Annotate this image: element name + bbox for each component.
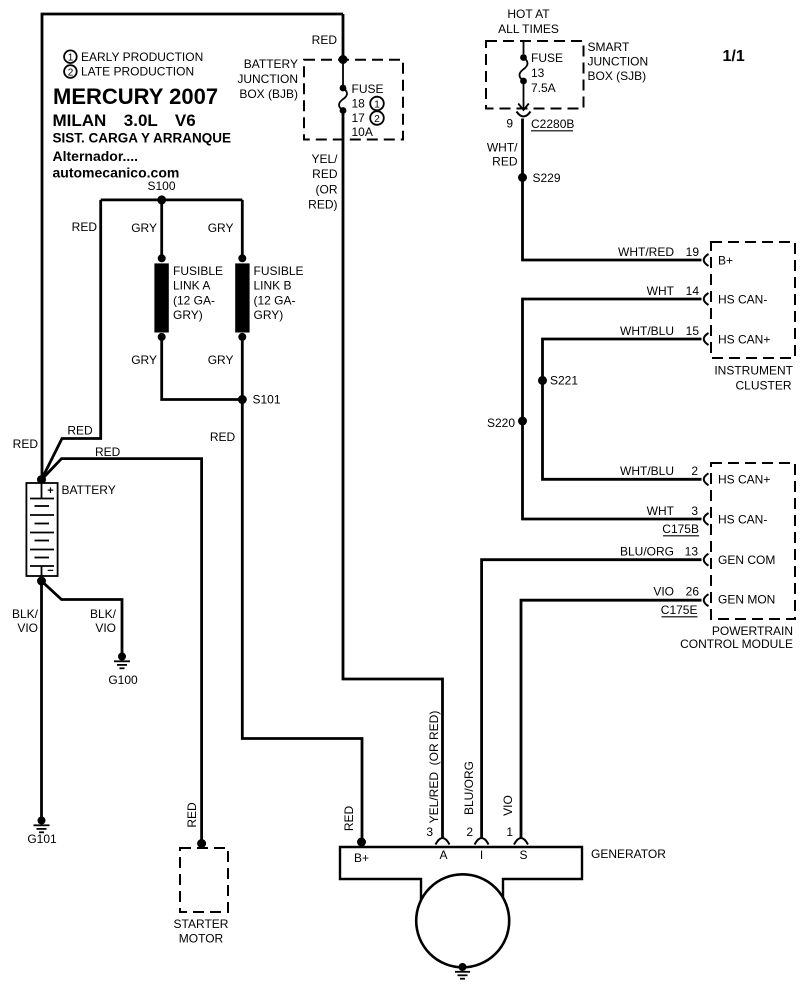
svg-text:WHT/: WHT/ <box>487 141 518 155</box>
svg-text:BLK/: BLK/ <box>12 607 39 621</box>
svg-text:WHT/BLU: WHT/BLU <box>620 464 674 478</box>
svg-text:G101: G101 <box>27 832 57 846</box>
wire YEL/RED (OR RED) from BJB fuse to generator A <box>308 111 442 839</box>
svg-text:LATE PRODUCTION: LATE PRODUCTION <box>81 65 194 79</box>
wire RED from S101 to generator B+ <box>210 400 362 841</box>
svg-text:RED): RED) <box>308 198 337 212</box>
svg-text:WHT: WHT <box>647 504 675 518</box>
instrument cluster (dashed) <box>711 242 795 393</box>
connector C175B label <box>662 522 699 536</box>
hot at all times label <box>498 7 559 36</box>
connector pin cluster HS CAN- <box>704 293 709 305</box>
svg-text:MILAN 3.0L V6: MILAN 3.0L V6 <box>53 111 196 130</box>
svg-text:13: 13 <box>531 66 545 80</box>
wire GRY from link B to S101 <box>208 337 243 400</box>
connector pin PCM HS CAN- <box>704 513 709 525</box>
svg-text:MERCURY 2007: MERCURY 2007 <box>53 84 218 109</box>
svg-text:15: 15 <box>686 324 700 338</box>
svg-text:2: 2 <box>691 464 698 478</box>
legend early/late production <box>64 50 203 79</box>
node generator B+ <box>357 838 366 847</box>
svg-text:HS CAN-: HS CAN- <box>718 513 767 527</box>
powertrain control module (dashed) <box>680 463 795 651</box>
svg-text:VIO: VIO <box>653 585 674 599</box>
title block <box>53 84 232 181</box>
svg-text:1: 1 <box>374 99 380 110</box>
svg-text:13: 13 <box>685 545 699 559</box>
svg-text:BLK/: BLK/ <box>90 607 117 621</box>
fusible link B <box>235 254 303 341</box>
svg-text:RED: RED <box>492 155 518 169</box>
svg-text:18: 18 <box>352 97 366 111</box>
svg-text:GRY): GRY) <box>173 308 203 322</box>
svg-text:G100: G100 <box>108 673 138 687</box>
connector pin generator A <box>436 838 450 845</box>
ground at generator <box>455 963 470 979</box>
splice S229 <box>518 171 561 185</box>
svg-text:EARLY PRODUCTION: EARLY PRODUCTION <box>81 50 203 64</box>
splice S221 <box>538 374 578 388</box>
svg-text:WHT/BLU: WHT/BLU <box>620 324 674 338</box>
ground G101 <box>27 817 57 847</box>
svg-text:14: 14 <box>686 284 700 298</box>
svg-text:WHT: WHT <box>647 284 675 298</box>
svg-text:HS CAN+: HS CAN+ <box>718 333 770 347</box>
generator body circle <box>416 874 509 967</box>
fuse 18/17 10A in BJB <box>339 60 384 140</box>
svg-text:SIST. CARGA Y ARRANQUE: SIST. CARGA Y ARRANQUE <box>53 131 232 146</box>
svg-text:BATTERY: BATTERY <box>62 483 116 497</box>
wire BLK/VIO battery to G100 <box>42 581 123 653</box>
connector pin PCM GEN COM <box>704 554 709 566</box>
svg-text:RED: RED <box>342 806 356 832</box>
wire WHT/RED from connector to S229 to cluster B+ <box>487 119 702 261</box>
splice S101 <box>238 393 281 407</box>
wire VIO PCM GEN MON to generator S <box>501 585 702 839</box>
svg-text:10A: 10A <box>352 125 373 139</box>
svg-text:GEN MON: GEN MON <box>718 593 775 607</box>
svg-text:CONTROL MODULE: CONTROL MODULE <box>680 637 793 651</box>
svg-text:ALL TIMES: ALL TIMES <box>498 22 559 36</box>
svg-text:GEN COM: GEN COM <box>718 553 775 567</box>
connector pin cluster HS CAN+ <box>704 333 709 345</box>
svg-text:RED: RED <box>312 167 338 181</box>
wire GRY to fusible link A <box>131 200 161 258</box>
node battery positive <box>37 475 46 484</box>
svg-text:Alternador....: Alternador.... <box>53 148 139 164</box>
svg-text:2: 2 <box>68 67 74 78</box>
wire RED from S100 to battery <box>42 200 101 480</box>
svg-text:1: 1 <box>506 825 513 839</box>
svg-text:19: 19 <box>686 245 700 259</box>
svg-text:B+: B+ <box>718 254 733 268</box>
svg-text:WHT/RED: WHT/RED <box>618 245 674 259</box>
svg-text:RED: RED <box>72 220 98 234</box>
svg-text:INSTRUMENT: INSTRUMENT <box>714 364 793 378</box>
svg-text:MOTOR: MOTOR <box>179 932 224 946</box>
svg-text:(12 GA-: (12 GA- <box>254 293 296 307</box>
splice S100 <box>147 179 175 204</box>
svg-text:GRY): GRY) <box>254 308 284 322</box>
node battery negative <box>37 577 46 586</box>
svg-text:RED: RED <box>312 33 338 47</box>
svg-text:(12 GA-: (12 GA- <box>173 293 215 307</box>
svg-text:C175E: C175E <box>661 603 698 617</box>
svg-text:S100: S100 <box>147 179 175 193</box>
battery <box>26 483 115 577</box>
svg-text:S220: S220 <box>487 416 515 430</box>
svg-text:BOX (SJB): BOX (SJB) <box>588 69 647 83</box>
generator box <box>340 847 582 905</box>
svg-text:FUSIBLE: FUSIBLE <box>173 264 223 278</box>
svg-text:LINK A: LINK A <box>173 279 210 293</box>
wire WHT/BLU cluster HS CAN+ to PCM HS CAN+ <box>543 324 702 479</box>
svg-text:S229: S229 <box>533 171 561 185</box>
svg-text:CLUSTER: CLUSTER <box>735 379 791 393</box>
wire GRY to fusible link B <box>208 200 243 258</box>
svg-text:+: + <box>47 485 53 497</box>
svg-text:B+: B+ <box>354 851 369 865</box>
svg-text:JUNCTION: JUNCTION <box>237 72 298 86</box>
svg-text:FUSE: FUSE <box>531 51 563 65</box>
svg-text:LINK B: LINK B <box>254 279 292 293</box>
svg-text:1/1: 1/1 <box>723 48 745 65</box>
svg-text:GRY: GRY <box>131 221 157 235</box>
svg-text:RED: RED <box>95 445 121 459</box>
svg-text:2: 2 <box>374 114 380 125</box>
svg-text:1: 1 <box>68 53 74 64</box>
node junction at BJB top <box>339 55 348 64</box>
fusible link A <box>154 254 223 341</box>
svg-text:RED: RED <box>185 802 199 828</box>
svg-text:VIO: VIO <box>17 621 38 635</box>
connector pin PCM GEN MON <box>704 594 709 606</box>
svg-text:GRY: GRY <box>208 353 234 367</box>
svg-text:9: 9 <box>506 117 513 131</box>
svg-text:26: 26 <box>686 585 700 599</box>
svg-text:RED: RED <box>210 430 236 444</box>
svg-text:BOX (BJB): BOX (BJB) <box>239 87 298 101</box>
wire WHT cluster HS CAN- to PCM HS CAN- <box>523 284 702 519</box>
svg-text:YEL/RED (OR RED): YEL/RED (OR RED) <box>427 711 441 824</box>
svg-text:S221: S221 <box>550 374 578 388</box>
svg-text:GENERATOR: GENERATOR <box>591 847 666 861</box>
svg-text:17: 17 <box>352 111 366 125</box>
wire RED battery feed (top + left) <box>13 14 343 478</box>
svg-text:3: 3 <box>691 504 698 518</box>
svg-text:GRY: GRY <box>131 353 157 367</box>
svg-text:JUNCTION: JUNCTION <box>588 55 649 69</box>
wire GRY from link A to S101 <box>131 337 242 400</box>
svg-text:I: I <box>480 848 483 862</box>
svg-text:3: 3 <box>426 825 433 839</box>
svg-text:BLU/ORG: BLU/ORG <box>620 545 674 559</box>
battery junction box BJB (dashed) <box>237 57 403 140</box>
svg-text:VIO: VIO <box>501 795 515 816</box>
wire BLU/ORG PCM GEN COM to generator I <box>462 545 702 839</box>
wire BLK/VIO battery to G101 <box>12 581 42 817</box>
svg-text:(OR: (OR <box>316 183 338 197</box>
starter motor (dashed) <box>174 839 229 946</box>
svg-text:HS CAN+: HS CAN+ <box>718 473 770 487</box>
svg-text:HOT AT: HOT AT <box>507 7 550 21</box>
connector C175E label <box>661 603 698 617</box>
svg-text:SMART: SMART <box>588 40 630 54</box>
svg-text:S101: S101 <box>253 393 281 407</box>
svg-text:7.5A: 7.5A <box>531 81 556 95</box>
svg-text:BLU/ORG: BLU/ORG <box>462 761 476 815</box>
svg-text:YEL/: YEL/ <box>311 152 338 166</box>
splice S220 <box>487 416 527 430</box>
generator pin numbers and labels <box>354 825 666 865</box>
svg-text:HS CAN-: HS CAN- <box>718 293 767 307</box>
wire S100 bus <box>101 198 243 201</box>
connector pin generator S <box>514 838 528 845</box>
wire RED from battery to starter motor <box>42 445 202 841</box>
svg-text:C175B: C175B <box>662 522 699 536</box>
svg-text:A: A <box>439 848 447 862</box>
svg-text:FUSE: FUSE <box>352 82 384 96</box>
svg-text:RED: RED <box>67 424 93 438</box>
svg-text:POWERTRAIN: POWERTRAIN <box>712 624 793 638</box>
svg-text:VIO: VIO <box>95 621 116 635</box>
svg-text:FUSIBLE: FUSIBLE <box>254 264 304 278</box>
svg-text:RED: RED <box>13 437 39 451</box>
svg-text:2: 2 <box>466 825 473 839</box>
connector C2280B pin 9 <box>506 112 574 132</box>
connector pin cluster B+ <box>704 254 709 266</box>
ground G100 <box>108 653 138 688</box>
arrow from SJB fuse to connector <box>518 81 529 110</box>
connector pin generator I <box>475 838 489 845</box>
fuse 13 7.5A in SJB <box>520 41 564 95</box>
svg-text:STARTER: STARTER <box>174 917 229 931</box>
svg-text:C2280B: C2280B <box>531 117 574 131</box>
connector pin PCM HS CAN+ <box>704 473 709 485</box>
smart junction box SJB (dashed) <box>486 40 648 109</box>
svg-text:S: S <box>519 848 527 862</box>
svg-text:GRY: GRY <box>208 221 234 235</box>
svg-text:−: − <box>47 565 53 577</box>
svg-text:BATTERY: BATTERY <box>244 57 298 71</box>
